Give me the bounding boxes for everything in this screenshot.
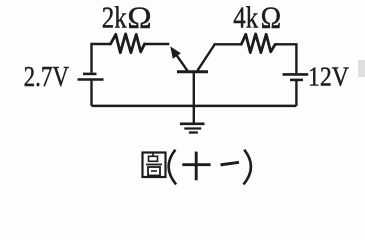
wire resistor R1 to emitter [145, 43, 170, 45]
wire bottom [92, 105, 297, 108]
transistor Q1 base lead down [193, 72, 195, 123]
svg-text:12V: 12V [308, 62, 349, 92]
wire left vertical bottom [90, 80, 92, 106]
svg-text:2.7V: 2.7V [24, 62, 70, 93]
ground [180, 124, 205, 133]
wire top-left [92, 43, 111, 45]
transistor Q1 collector lead [197, 44, 215, 71]
caption glyph tu (figure) [143, 153, 166, 178]
wire right vertical top [295, 43, 297, 73]
wire resistor R2 to corner [275, 43, 296, 45]
battery V1 2.7V long plate [78, 78, 104, 81]
caption open paren [169, 150, 176, 185]
svg-text:2k: 2k [102, 0, 127, 34]
svg-text:Ω: Ω [127, 0, 151, 34]
wire collector to resistor R2 [214, 43, 242, 45]
transistor Q1 base bar [177, 70, 208, 73]
battery V1 2.7V short plate [83, 73, 97, 76]
resistor R2 4k zigzag [241, 34, 275, 53]
battery V2 12V short plate [290, 79, 303, 82]
svg-text:Ω: Ω [261, 1, 282, 35]
scan artifact grey block [358, 60, 365, 77]
transistor Q1 emitter lead with arrow [170, 46, 187, 71]
resistor R1 2k zigzag [111, 34, 145, 53]
caption glyph one [221, 162, 240, 165]
wire left vertical top [90, 43, 92, 73]
battery V2 12V long plate [283, 73, 309, 76]
caption close paren [244, 150, 251, 185]
svg-text:4k: 4k [233, 1, 258, 35]
caption glyph ten [182, 152, 210, 181]
wire right vertical bottom [295, 81, 297, 106]
